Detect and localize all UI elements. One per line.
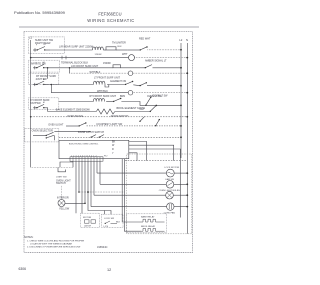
svg-text:H1: H1: [43, 79, 45, 81]
wire drop pin i: [96, 161, 98, 173]
element coil surface unit RF: [93, 98, 104, 101]
svg-text:YELLOW: YELLOW: [59, 207, 70, 210]
switch SW8: [106, 98, 181, 106]
svg-text:DOOR SWITCH: DOOR SWITCH: [111, 115, 129, 118]
svg-text:WHT: WHT: [122, 53, 128, 56]
wire drop pin g: [90, 161, 92, 206]
junction rung6 N: [186, 92, 188, 94]
switch circle S2: [166, 181, 174, 189]
lock motor symbol: [85, 220, 96, 223]
lamp signal light 3: [128, 90, 133, 95]
svg-text:1250W: 1250W: [95, 54, 103, 56]
control board box: [59, 140, 129, 158]
wire rung 4 dotted right: [133, 72, 187, 74]
switch SW11: [66, 122, 87, 126]
svg-text:BK: BK: [112, 141, 116, 144]
junction latch L2: [180, 136, 182, 138]
svg-text:12: 12: [107, 268, 111, 272]
svg-text:H1: H1: [43, 62, 45, 64]
wire control pin1 right: [129, 142, 147, 161]
lamp signal light 1: [129, 55, 135, 61]
wire drop pin b: [75, 161, 77, 213]
wire dotted to L1 bottom: [31, 166, 73, 168]
svg-text:BAKE ELEMENT 2585/3000W: BAKE ELEMENT 2585/3000W: [56, 109, 91, 112]
wire control pin4 right: [129, 153, 137, 161]
wire circle4 left: [91, 206, 167, 208]
svg-text:BROIL RELAY: BROIL RELAY: [141, 225, 156, 228]
motor interior circle: [58, 200, 65, 207]
vertical drop selector: [53, 136, 55, 141]
svg-text:316544C: 316544C: [97, 245, 108, 249]
svg-text:R: R: [112, 148, 114, 151]
element coil surface unit RR: [93, 47, 104, 50]
svg-text:BLK: BLK: [116, 222, 121, 224]
wire circle4 right: [174, 206, 187, 208]
junction rung2 L1: [30, 57, 32, 59]
control connector pin row: [70, 157, 103, 161]
junction rung5 L2: [180, 85, 182, 87]
wire bracket jog: [58, 167, 66, 172]
wire rung 7 left: [59, 101, 94, 103]
wire drop pin d: [81, 161, 83, 213]
wire relay feed 1 vertical: [122, 159, 141, 222]
switch SW13 pair: [91, 135, 105, 138]
wire drop pin f to lock switch: [88, 161, 111, 214]
wire rung bake right: [115, 111, 150, 113]
svg-text:LOCK MOTOR: LOCK MOTOR: [164, 167, 179, 169]
wire drop pin e: [84, 161, 86, 203]
junction rung3 drop: [47, 67, 49, 69]
junction rung2 N: [186, 57, 188, 59]
svg-text:H1: H1: [44, 44, 46, 46]
wire control pin2 right: [129, 145, 174, 160]
wire step to light switch: [60, 162, 73, 167]
relay box C: [127, 214, 167, 233]
wire circle3 right: [173, 194, 187, 196]
svg-text:Publication No. 5995439899: Publication No. 5995439899: [14, 10, 66, 15]
relay coil 1: [141, 219, 165, 222]
junction circle2 N: [186, 183, 188, 185]
svg-text:123456789012: 123456789012: [71, 155, 98, 157]
vertical drop rung3 to rung5: [47, 68, 49, 79]
svg-text:TM LIMITER: TM LIMITER: [112, 42, 126, 45]
svg-text:LIGHT SW: LIGHT SW: [56, 177, 67, 179]
svg-text:P: P: [36, 45, 38, 47]
switch SW4: [145, 65, 181, 69]
junction rung3 tap: [69, 67, 71, 69]
junction rung8 N: [186, 116, 188, 118]
wire circle1 right: [174, 172, 187, 174]
motor convection bars: [169, 204, 171, 209]
wire rung latch dashed: [59, 136, 181, 138]
vertical drop rung5 to rung6: [50, 85, 52, 93]
svg-text:BAKE RELAY: BAKE RELAY: [141, 215, 155, 218]
junction rung7 L2: [180, 105, 182, 107]
motor M1 circle: [166, 169, 174, 177]
wire N bus: [186, 43, 188, 234]
svg-text:WIRING SCHEMATIC: WIRING SCHEMATIC: [87, 18, 134, 23]
svg-text:OVEN LIGHT: OVEN LIGHT: [48, 123, 64, 126]
switch box left front surface unit: [29, 98, 59, 110]
resistor bake element: [96, 109, 115, 114]
junction bake L2: [156, 105, 158, 107]
lock switch box B: [102, 214, 124, 227]
wire rung 8 dashed: [31, 116, 188, 118]
switch box right front surface unit: [29, 74, 59, 85]
wire circle1 left: [97, 172, 166, 174]
wire drop pin a: [72, 161, 74, 167]
wire interior light right: [65, 202, 85, 204]
svg-text:L1 N: L1 N: [104, 226, 109, 228]
wire drop pin j: [99, 161, 101, 184]
junction circle1 N: [186, 172, 188, 174]
switch SW12 multi: [33, 132, 54, 138]
lamp oven light circle: [166, 191, 174, 199]
svg-text:WHT: WHT: [140, 109, 146, 111]
junction drop e: [84, 203, 86, 205]
svg-text:Y: Y: [112, 152, 114, 155]
wire from selector to right: [54, 131, 91, 133]
switch box right rear surface unit: [28, 37, 64, 54]
svg-text:LATCH: LATCH: [84, 224, 91, 227]
lock motor box A: [81, 213, 100, 227]
svg-text:LOCK SW: LOCK SW: [104, 218, 115, 220]
junction rung9 N: [180, 125, 182, 127]
wire drop pin h: [93, 161, 95, 195]
wire mid horizontal 192: [79, 191, 125, 193]
svg-text:L/R REAR SURF UNIT 2250W: L/R REAR SURF UNIT 2250W: [59, 45, 94, 48]
lock switch symbol: [105, 221, 117, 224]
switch transfer right: [155, 119, 160, 127]
junction rung1 L2: [180, 49, 182, 51]
wire rung 4 dotted: [70, 72, 128, 74]
header rule: [19, 26, 199, 28]
svg-text:WHT/BLK: WHT/BLK: [97, 90, 108, 93]
switch circle S2 detail: [168, 183, 173, 186]
wire rung 3: [48, 67, 113, 69]
svg-text:INTERIOR: INTERIOR: [57, 197, 69, 200]
junction rung5 drop: [51, 84, 53, 86]
svg-text:COURTESY LIGHT SW: COURTESY LIGHT SW: [96, 123, 123, 126]
switch SW2: [127, 46, 148, 50]
svg-text:MOTOR: MOTOR: [83, 217, 92, 219]
switch SW9: [145, 97, 151, 106]
svg-text:RED WHT: RED WHT: [139, 38, 151, 41]
svg-text:FEF366ECU: FEF366ECU: [98, 12, 121, 17]
svg-text:2. DISCONNECT POWER BEFORE SE: 2. DISCONNECT POWER BEFORE SERVICING UNI…: [27, 247, 81, 249]
wire L1 bus: [30, 40, 32, 167]
element coil surface unit LF: [93, 81, 105, 84]
motor convection circle: [167, 203, 174, 210]
svg-text:1500W: 1500W: [103, 62, 111, 65]
wire rung 6: [51, 92, 128, 94]
wire lock switch entry 2: [104, 211, 106, 215]
junction rung3 L2: [180, 67, 182, 69]
svg-text:L2: L2: [179, 38, 183, 42]
switch SW10: [150, 105, 157, 112]
dashed enclosure door lock assembly: [127, 154, 192, 234]
wire rung 1: [50, 49, 93, 51]
svg-text:BLK: BLK: [118, 46, 123, 48]
junction mid 1: [87, 191, 89, 193]
junction circle3 N: [186, 194, 188, 196]
lamp cross detail: [167, 193, 172, 198]
thermal limiter TL1: [103, 47, 127, 50]
switch transfer 2: [139, 116, 144, 122]
junction drop i: [78, 191, 80, 193]
drawing border frame: [24, 32, 193, 253]
svg-text:6306: 6306: [19, 267, 27, 271]
junction circle4 N: [186, 206, 188, 208]
wire relay feed 2 vertical: [124, 159, 141, 232]
switch box oven selector: [25, 128, 59, 142]
switch SW3: [33, 64, 48, 69]
svg-text:1. CHECK WIRE COLORS AND ROUT: 1. CHECK WIRE COLORS AND ROUTING FOR PRO…: [27, 240, 85, 243]
motor interior cross: [59, 201, 64, 206]
wire rung bake: [48, 111, 97, 113]
wire top lock rung: [125, 160, 187, 162]
junction rung8 L1: [30, 116, 32, 118]
svg-text:W: W: [112, 144, 115, 147]
wire drop pin c: [78, 161, 80, 192]
wire rung 6 dotted to N: [133, 92, 188, 94]
wire circle2 left: [100, 183, 166, 185]
relay coil 2: [141, 228, 165, 231]
svg-text:OVEN SIGNAL: OVEN SIGNAL: [67, 115, 84, 118]
svg-text:H1: H1: [43, 102, 45, 104]
switch SW6: [107, 81, 181, 87]
wire rung 9 dotted: [87, 125, 182, 127]
wire rung 2 dotted to N: [135, 57, 188, 59]
svg-text:NOTES:: NOTES:: [24, 236, 34, 239]
svg-text:P12: P12: [104, 156, 107, 158]
svg-text:ELEMENT ON: ELEMENT ON: [110, 80, 126, 83]
switch SW1: [33, 47, 50, 52]
svg-text:DOOR LATCH SWITCH: DOOR LATCH SWITCH: [78, 131, 104, 134]
lamp signal light 2: [128, 71, 133, 76]
wire rung 2: [31, 57, 129, 59]
wire L2 bus: [180, 43, 182, 158]
svg-text:L1: L1: [29, 36, 33, 40]
svg-text:UNIT SW: UNIT SW: [36, 78, 47, 81]
svg-text:ELECTRONIC OVEN CONTROL: ELECTRONIC OVEN CONTROL: [69, 144, 99, 146]
svg-text:TERMINAL BLOCK BLK: TERMINAL BLOCK BLK: [61, 61, 88, 64]
switch box left rear surface unit: [28, 60, 59, 72]
wire rung 1 dotted to L2: [148, 49, 182, 51]
wire circle2 right: [174, 183, 188, 185]
wire rung 5: [48, 84, 93, 86]
svg-text:N: N: [186, 38, 188, 42]
junction drop j: [87, 191, 89, 193]
svg-text:OVEN SELECTOR: OVEN SELECTOR: [32, 130, 53, 133]
wire circle3 left: [94, 194, 166, 196]
svg-text:SWITCH: SWITCH: [56, 182, 66, 185]
vertical drop sw7 to rung bake: [47, 108, 49, 112]
motor M1 detail: [168, 172, 174, 174]
wire control pin3 right: [129, 149, 181, 218]
svg-text:AMBER SIGNAL LT: AMBER SIGNAL LT: [145, 60, 167, 63]
terminal block ticks: [62, 56, 66, 60]
svg-text:RT FRONT SURF UNIT: RT FRONT SURF UNIT: [90, 95, 117, 98]
switch SW5: [33, 81, 48, 86]
svg-text:LOCATION WITH THE WIRING DIAGR: LOCATION WITH THE WIRING DIAGRAM: [30, 242, 72, 245]
junction rung4 N: [186, 72, 188, 74]
wire tap drop rung4: [69, 68, 71, 73]
thermal limiter TL2: [113, 65, 145, 68]
switch SW7: [33, 104, 48, 109]
svg-text:DOOR LT SW: DOOR LT SW: [153, 95, 169, 98]
wire interior light up: [61, 185, 63, 200]
svg-text:BRN: BRN: [120, 95, 125, 98]
